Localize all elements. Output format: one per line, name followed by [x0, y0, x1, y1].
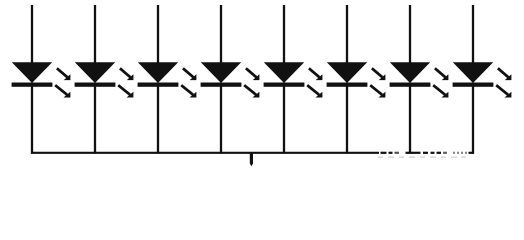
wire: cathode wire of LED D7 (bottom vertical): [409, 87, 411, 154]
wire: cathode wire of LED D8 (bottom vertical): [472, 87, 474, 154]
LED D5 triangle (anode): [264, 62, 304, 83]
wire: anode wire of LED D4 (top vertical): [220, 5, 222, 64]
LED D7 triangle (anode): [390, 62, 430, 83]
LED D2 triangle (anode): [75, 62, 115, 83]
wire: cathode wire of LED D3 (bottom vertical): [157, 87, 159, 154]
LED D4 cathode bar: [201, 83, 242, 87]
LED D5 light-emission arrow 2: [307, 85, 322, 97]
LED D8 light-emission arrow 2: [496, 85, 511, 97]
wire: anode wire of LED D5 (top vertical): [283, 5, 285, 64]
LED D3 triangle (anode): [138, 62, 178, 83]
LED D3 cathode bar: [138, 83, 179, 87]
LED D1 light-emission arrow 1: [57, 68, 71, 80]
wire: anode wire of LED D8 (top vertical): [472, 5, 474, 64]
LED D6 light-emission arrow 2: [370, 85, 385, 97]
wire: cathode wire of LED D1 (bottom vertical): [31, 87, 33, 154]
LED D5 cathode bar: [264, 83, 305, 87]
LED D6 light-emission arrow 1: [372, 68, 386, 80]
wire: anode wire of LED D1 (top vertical): [31, 5, 33, 64]
LED D8 cathode bar: [453, 83, 494, 87]
LED D2 cathode bar: [75, 83, 116, 87]
LED D2 light-emission arrow 1: [120, 68, 133, 80]
LED D7 cathode bar: [390, 83, 431, 87]
LED D5 light-emission arrow 1: [309, 68, 323, 80]
LED D3 light-emission arrow 1: [183, 68, 197, 80]
LED D8 triangle (anode): [453, 62, 493, 83]
watermark remnant (faint): [378, 157, 466, 158]
LED D6 cathode bar: [327, 83, 368, 87]
wire: anode wire of LED D2 (top vertical): [94, 5, 96, 64]
LED D4 light-emission arrow 1: [246, 68, 260, 80]
wire: anode wire of LED D7 (top vertical): [409, 5, 411, 64]
wire: cathode wire of LED D5 (bottom vertical): [283, 87, 285, 154]
LED D3 light-emission arrow 2: [181, 85, 196, 97]
LED D1 cathode bar: [12, 83, 53, 87]
wire: anode wire of LED D6 (top vertical): [346, 5, 348, 64]
LED D4 triangle (anode): [201, 62, 241, 83]
LED D6 triangle (anode): [327, 62, 367, 83]
wire: cathode wire of LED D6 (bottom vertical): [346, 87, 348, 154]
LED D1 light-emission arrow 2: [55, 85, 70, 97]
LED D4 light-emission arrow 2: [244, 85, 259, 97]
wire: cathode wire of LED D4 (bottom vertical): [220, 87, 222, 154]
wire: common cathode bottom bus (dashed/eroded section): [381, 152, 475, 154]
wire: common cathode bottom bus (solid section): [31, 152, 379, 154]
LED D7 light-emission arrow 2: [433, 85, 448, 97]
wire: cathode wire of LED D2 (bottom vertical): [94, 87, 96, 154]
LED D7 light-emission arrow 1: [435, 68, 449, 80]
LED D1 triangle (anode): [12, 62, 52, 83]
node: common cathode output terminal stub: [250, 153, 253, 167]
LED D2 light-emission arrow 2: [118, 85, 133, 97]
LED D8 light-emission arrow 1: [498, 68, 512, 80]
wire: anode wire of LED D3 (top vertical): [157, 5, 159, 64]
